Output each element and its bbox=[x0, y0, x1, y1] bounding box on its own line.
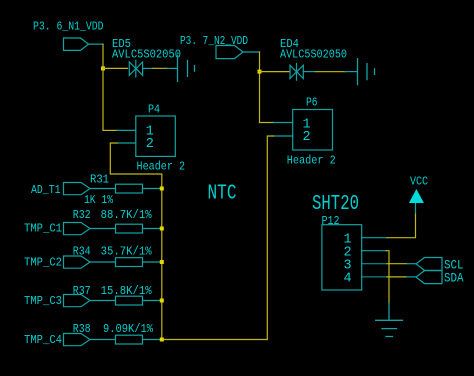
junction R32/bus bbox=[160, 227, 164, 231]
wire P12 pin3 to SCL bbox=[387, 263, 406, 265]
wire junction to ED5 bbox=[103, 67, 128, 69]
wire R31 to bus bbox=[143, 188, 162, 190]
wire P12 pin1 to VCC bbox=[387, 213, 416, 238]
svg-text:TMP_C2: TMP_C2 bbox=[24, 256, 62, 270]
svg-text:2: 2 bbox=[302, 130, 310, 145]
pin 2 (P12) bbox=[362, 250, 386, 252]
header P4 bbox=[136, 116, 176, 156]
ground (SHT20) bbox=[376, 303, 403, 337]
pin 3 (P12) bbox=[362, 263, 387, 265]
wire ED5 to ground bbox=[143, 67, 153, 69]
wire TMP_C4 to R38 bbox=[90, 339, 116, 341]
junction R31/bus bbox=[160, 187, 164, 191]
port P3.7_N2_VDD bbox=[216, 46, 243, 59]
svg-text:88.7K/1%: 88.7K/1% bbox=[101, 208, 153, 222]
wire net N2_VDD vertical bbox=[259, 52, 261, 123]
wire AD_T1 to R31 bbox=[90, 188, 116, 190]
svg-text:2: 2 bbox=[146, 137, 154, 152]
svg-text:P6: P6 bbox=[306, 96, 318, 110]
pin 1 (P6) bbox=[274, 122, 293, 124]
svg-text:P4: P4 bbox=[148, 103, 160, 117]
port SDA bbox=[416, 271, 442, 284]
wire port P3.7 to corner bbox=[243, 51, 260, 53]
header P6 bbox=[293, 110, 333, 151]
wire to P4 pin 1 bbox=[103, 129, 117, 131]
svg-text:VCC: VCC bbox=[410, 174, 428, 188]
port TMP_C2 bbox=[64, 256, 91, 268]
svg-text:AVLC5S02050: AVLC5S02050 bbox=[112, 48, 181, 62]
svg-text:R34: R34 bbox=[73, 244, 91, 258]
svg-text:TMP_C1: TMP_C1 bbox=[24, 222, 62, 236]
wire TMP_C2 to R34 bbox=[90, 261, 116, 263]
wire net N1_VDD vertical bbox=[102, 44, 104, 130]
pin 2 (P6) bbox=[274, 135, 293, 137]
wire junction to ED4 bbox=[260, 71, 290, 73]
svg-text:R37: R37 bbox=[73, 284, 91, 298]
svg-text:15.8K/1%: 15.8K/1% bbox=[101, 284, 153, 298]
pin 1 (P4) bbox=[117, 129, 136, 131]
ground (ED5, rotated right) bbox=[178, 55, 195, 81]
junction R34/bus bbox=[160, 260, 164, 264]
svg-text:Header 2: Header 2 bbox=[137, 159, 186, 173]
wire P12 pin2 to ground bbox=[386, 251, 389, 303]
wire R34 to bus bbox=[143, 261, 162, 263]
junction R38/bus corner bbox=[160, 338, 164, 342]
junction at ED4 tap bbox=[258, 70, 262, 74]
svg-text:4: 4 bbox=[343, 272, 351, 287]
wire TMP_C1 to R32 bbox=[90, 228, 116, 230]
resistor R34 bbox=[116, 258, 143, 267]
wire to P6 pin 1 bbox=[260, 122, 274, 124]
port AD_T1 bbox=[64, 183, 91, 195]
svg-text:P3. 6_N1_VDD: P3. 6_N1_VDD bbox=[33, 20, 104, 34]
resistor R32 bbox=[116, 224, 143, 233]
svg-text:R38: R38 bbox=[73, 322, 91, 336]
port TMP_C4 bbox=[64, 334, 91, 346]
svg-text:9.09K/1%: 9.09K/1% bbox=[103, 322, 154, 336]
resistor R38 bbox=[116, 335, 143, 344]
pin 4 (P12) bbox=[362, 276, 387, 278]
svg-text:R31: R31 bbox=[90, 173, 109, 187]
TVS diode ED4 bbox=[290, 64, 303, 81]
port SCL bbox=[416, 258, 442, 271]
wire TMP_C3 to R37 bbox=[90, 300, 116, 302]
port TMP_C3 bbox=[64, 295, 91, 307]
svg-text:AVLC5S02050: AVLC5S02050 bbox=[280, 48, 347, 62]
TVS diode ED5 bbox=[129, 60, 142, 77]
pin 2 (P4) bbox=[117, 142, 136, 144]
svg-text:Header 2: Header 2 bbox=[287, 154, 336, 168]
wire bus from P4 pin 2 bbox=[110, 136, 273, 340]
power VCC bbox=[415, 203, 417, 213]
svg-text:R32: R32 bbox=[73, 208, 91, 222]
svg-text:1K 1%: 1K 1% bbox=[84, 193, 114, 207]
header P12 bbox=[322, 225, 362, 290]
svg-text:35.7K/1%: 35.7K/1% bbox=[101, 244, 153, 258]
wire ED4 to ground bbox=[303, 71, 315, 73]
junction at ED5 tap bbox=[101, 66, 105, 70]
pin 1 (P12) bbox=[362, 237, 387, 239]
svg-text:AD_T1: AD_T1 bbox=[31, 183, 61, 197]
port TMP_C1 bbox=[64, 223, 91, 235]
port P3.6_N1_VDD bbox=[64, 38, 89, 50]
svg-text:P12: P12 bbox=[322, 214, 340, 228]
wire port P3.6 to corner bbox=[89, 43, 104, 45]
svg-text:TMP_C3: TMP_C3 bbox=[24, 294, 62, 308]
resistor R31 bbox=[116, 184, 143, 193]
wire R38 to bus bbox=[143, 339, 162, 341]
svg-text:NTC: NTC bbox=[208, 182, 237, 206]
svg-text:TMP_C4: TMP_C4 bbox=[24, 333, 62, 347]
svg-text:P3. 7_N2_VDD: P3. 7_N2_VDD bbox=[180, 34, 248, 48]
svg-text:SHT20: SHT20 bbox=[312, 192, 359, 216]
wire R37 to bus bbox=[143, 300, 162, 302]
junction R37/bus bbox=[160, 299, 164, 303]
wire R32 to bus bbox=[143, 228, 162, 230]
svg-text:SDA: SDA bbox=[444, 271, 464, 286]
resistor R37 bbox=[116, 296, 143, 305]
ground (ED4, rotated right) bbox=[358, 59, 375, 85]
wire P12 pin4 to SDA bbox=[387, 276, 406, 278]
